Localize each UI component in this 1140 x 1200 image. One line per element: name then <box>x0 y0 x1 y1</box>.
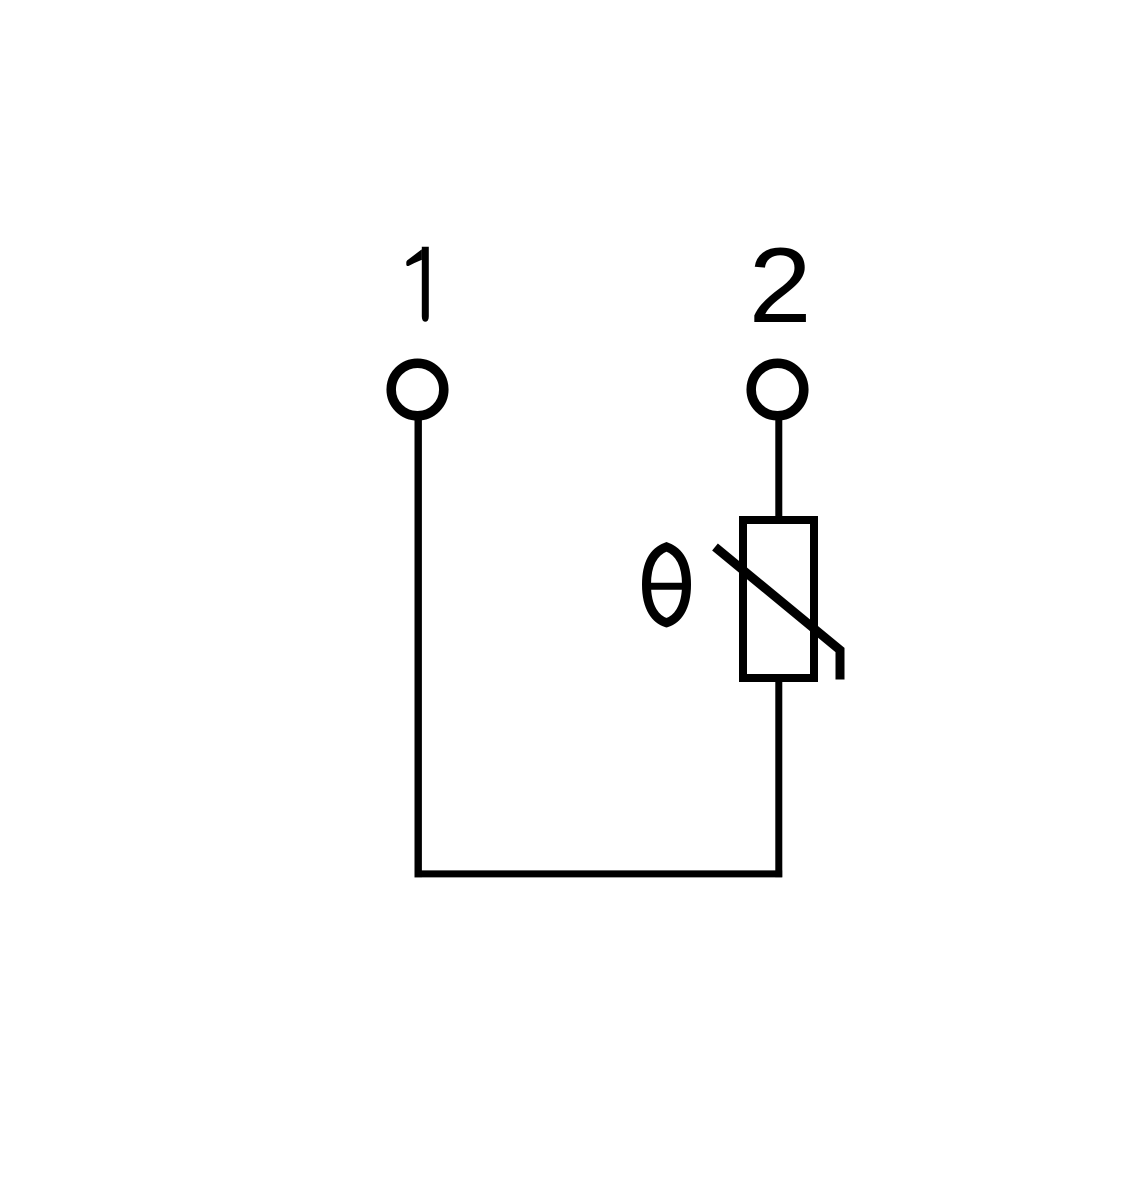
wire: bottom horizontal run <box>415 870 783 877</box>
wire: thermistor bottom lead <box>775 676 782 877</box>
pin number 1 <box>406 247 429 322</box>
theta (temperature) symbol: pointed oval outline <box>647 547 687 623</box>
wire: terminal 1 down lead <box>415 417 422 877</box>
thermistor variability diagonal with bent tail <box>715 547 840 680</box>
thermistor body (rectangle) <box>743 520 814 678</box>
theta (temperature) symbol: crossbar <box>644 583 689 590</box>
wire: terminal 2 down lead <box>775 417 782 519</box>
svg-text:2: 2 <box>749 225 812 345</box>
terminal 2 (circle) <box>751 363 804 416</box>
terminal 1 (circle) <box>391 363 444 416</box>
